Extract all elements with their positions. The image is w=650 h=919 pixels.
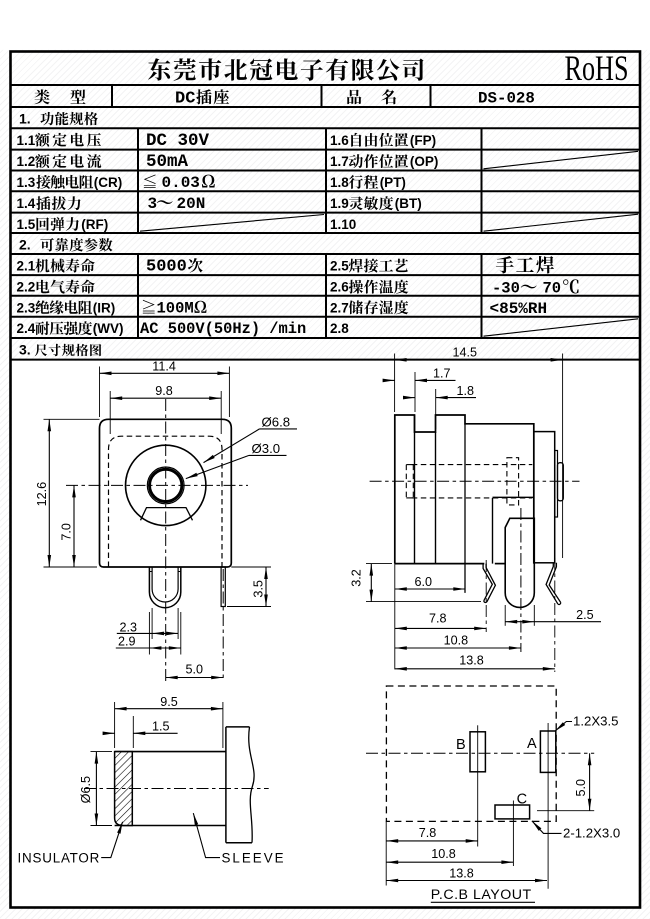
svg-text:7.8: 7.8 [419, 826, 437, 840]
SV dim 14.5 extension lines [394, 354, 396, 413]
svg-text:(IR): (IR) [93, 300, 116, 315]
svg-text:(OP): (OP) [410, 154, 439, 169]
FV leader D3.0 [249, 454, 287, 456]
PCB pad A centerline [547, 723, 549, 889]
PLUG barrel top edge [115, 751, 226, 753]
SV hidden pin pocket dashed [507, 458, 519, 505]
SV dim 1.8 extension line [435, 389, 437, 429]
SV hidden hole left cap dashed [405, 465, 407, 498]
FV right pin [221, 567, 225, 607]
SV pin top hidden edge [510, 517, 534, 519]
svg-text:(RF): (RF) [81, 217, 108, 232]
company name header [148, 58, 170, 80]
svg-text:1.8: 1.8 [457, 384, 475, 398]
PLUG insulator hatched block [115, 752, 133, 826]
FV dim 11.4 [100, 372, 230, 374]
svg-text:2.: 2. [19, 237, 31, 253]
svg-text:7.0: 7.0 [60, 523, 74, 541]
svg-text:1.1: 1.1 [17, 133, 36, 148]
PLUG dim 1.5 extension line [132, 716, 134, 748]
svg-text:RoHS: RoHS [565, 48, 629, 88]
svg-text:2.3: 2.3 [120, 620, 138, 634]
svg-text:1.7: 1.7 [433, 367, 451, 381]
N/A slash cell 1.10 [484, 214, 639, 231]
FV dim 9.8 [110, 397, 221, 399]
svg-text:1.5: 1.5 [17, 217, 36, 232]
svg-text:2.2: 2.2 [17, 280, 36, 295]
SV dim 3.2 [370, 564, 372, 602]
svg-text:5.0: 5.0 [186, 663, 204, 677]
PCB horizontal centerline [366, 752, 594, 754]
FV keyway trapezoid [141, 508, 193, 521]
FV center pin wall ticks [149, 571, 152, 573]
PCB pad C [495, 805, 530, 819]
svg-text:11.4: 11.4 [152, 359, 176, 373]
svg-text:13.8: 13.8 [459, 654, 484, 668]
svg-text:50mA: 50mA [146, 152, 189, 172]
SV internal horizontal ledge [493, 496, 534, 498]
SV flange right edge [414, 415, 416, 564]
FV dim 9.8 extension lines [109, 391, 111, 434]
FV inner ring D3.0 bold [150, 469, 182, 501]
PLUG dim 9.5 [115, 708, 223, 710]
svg-text:3: 3 [148, 195, 158, 213]
FV dim 12.6 extension lines [44, 418, 100, 420]
svg-text:2.3: 2.3 [17, 300, 36, 315]
SV internal vertical x435 [435, 432, 437, 564]
FV inner ring D3.0 outer [147, 467, 184, 504]
PLUG centerline [84, 788, 269, 790]
FV dim 3.5 extension lines [231, 566, 271, 568]
svg-text:2.8: 2.8 [330, 321, 349, 336]
FV dim 12.6 [48, 419, 50, 567]
SV internal vertical x465 [464, 424, 466, 593]
svg-text:9.8: 9.8 [155, 384, 173, 398]
svg-text:13.8: 13.8 [449, 867, 474, 881]
svg-text:DC 30V: DC 30V [146, 131, 210, 151]
svg-text:Ø6.5: Ø6.5 [79, 776, 93, 803]
svg-text:1.2X3.5: 1.2X3.5 [573, 713, 618, 728]
FV dim 11.4 extension lines [99, 367, 101, 418]
PLUG sleeve top edge [226, 726, 250, 728]
PLUG sleeve left edge [225, 727, 227, 843]
svg-text:2.6: 2.6 [330, 280, 349, 295]
FV body outline [100, 419, 232, 567]
FV big circle D6.8 [126, 445, 206, 525]
SV right block [534, 432, 555, 563]
FV leader D6.8 [260, 428, 298, 430]
FV pin extension lines below [151, 608, 153, 639]
svg-text:1.3: 1.3 [17, 175, 36, 190]
SV rounded center pin [505, 518, 534, 607]
svg-text:9.5: 9.5 [160, 695, 178, 709]
PCB dim 5.0 extension line [537, 810, 594, 812]
SV dim 2.5 extension lines [504, 605, 506, 626]
svg-text:12.6: 12.6 [35, 482, 49, 507]
PLUG sleeve wavy break line [249, 727, 254, 843]
FV horizontal centerline [66, 484, 248, 486]
FV dim 3.5 [265, 567, 267, 607]
PCB left extension line [385, 821, 387, 885]
table vertical grid lines row2 [111, 85, 113, 107]
svg-text:20N: 20N [177, 195, 206, 213]
SV dim 6.0 [395, 588, 466, 590]
svg-text:1.9: 1.9 [330, 196, 349, 211]
N/A slash cell 1.5 [140, 215, 324, 232]
PLUG dim 1.5 [133, 732, 177, 734]
PCB leader 1.2X3.5 [555, 722, 572, 732]
svg-text:P.C.B LAYOUT: P.C.B LAYOUT [431, 887, 532, 903]
svg-text:DC: DC [175, 90, 195, 109]
FV dim 7.0 [73, 485, 75, 567]
svg-text:1.10: 1.10 [330, 217, 356, 232]
N/A slash cell 2.8 [484, 319, 639, 336]
svg-text:2.5: 2.5 [576, 608, 594, 622]
PLUG sleeve bottom edge [226, 842, 252, 844]
SV right leg centerline [554, 558, 556, 672]
svg-text:SLEEVE: SLEEVE [222, 850, 286, 865]
svg-text:Ø3.0: Ø3.0 [252, 441, 281, 456]
svg-text:3.5: 3.5 [252, 580, 266, 598]
SV dim 10.8 [395, 647, 521, 649]
row type labels [34, 89, 49, 104]
SV dim 13.8 [395, 668, 555, 670]
table horizontal grid lines [10, 84, 640, 86]
PCB leader 2-1.2X3.0 [532, 821, 562, 834]
PCB pad B centerline [477, 725, 479, 846]
svg-text:7.8: 7.8 [429, 612, 447, 626]
top margin white [0, 0, 650, 50]
svg-text:A: A [527, 736, 537, 752]
FV center pin U inner wall [152, 567, 178, 602]
PCB pad A [540, 731, 555, 772]
PCB pad C centerline [512, 801, 514, 867]
svg-text:AC 500V(50Hz) /min: AC 500V(50Hz) /min [140, 320, 306, 338]
svg-text:(WV): (WV) [93, 321, 124, 336]
svg-text:0.03: 0.03 [162, 174, 200, 192]
svg-text:C: C [517, 791, 527, 807]
PCB dim 10.8 [386, 861, 513, 863]
PCB dashed outline [386, 686, 556, 821]
FV center pin U outer wall [149, 567, 180, 608]
svg-text:INSULATOR: INSULATOR [18, 850, 101, 865]
svg-text:70: 70 [543, 280, 562, 298]
PLUG barrel bottom edge [115, 825, 226, 827]
svg-text:1.6: 1.6 [330, 133, 349, 148]
svg-text:(PT): (PT) [380, 175, 406, 190]
svg-text:1.: 1. [19, 111, 31, 127]
FV right pin centerline [222, 569, 224, 679]
SV right leg [546, 563, 558, 604]
svg-text:2.7: 2.7 [330, 300, 349, 315]
PLUG dim D6.5 [95, 752, 97, 826]
svg-text:1.8: 1.8 [330, 175, 349, 190]
svg-text:5000: 5000 [146, 258, 187, 277]
PLUG dim D6.5 extension lines [91, 751, 113, 753]
svg-text:(FP): (FP) [410, 133, 436, 148]
PCB dim 13.8 [386, 880, 547, 882]
svg-text:1.7: 1.7 [330, 154, 349, 169]
FV dashed inner housing [109, 436, 223, 567]
svg-text:2.5: 2.5 [330, 259, 349, 274]
svg-text:1.2: 1.2 [17, 154, 36, 169]
SV left leg [483, 564, 492, 601]
svg-text:Ø6.8: Ø6.8 [262, 414, 291, 429]
PCB pad B [470, 732, 485, 772]
PCB dim 5.0 [589, 753, 591, 810]
N/A slash cell 1.7 [484, 151, 639, 169]
SV dim 2.5 [505, 621, 601, 623]
drawing area white background [12, 361, 639, 906]
svg-text:3.2: 3.2 [349, 569, 363, 587]
svg-text:2-1.2X3.0: 2-1.2X3.0 [563, 825, 620, 840]
SV dim 7.8 [395, 627, 486, 629]
svg-text:1.5: 1.5 [152, 720, 170, 734]
SV right thin plate [555, 451, 558, 518]
SV horizontal centerline [370, 480, 580, 482]
SV dim 1.8 [436, 397, 476, 399]
svg-text:100M: 100M [157, 299, 194, 317]
PLUG dim 9.5 extension lines [114, 702, 116, 748]
SV left leg centerline [485, 560, 487, 632]
svg-text:(BT): (BT) [395, 196, 422, 211]
svg-text:5.0: 5.0 [574, 779, 588, 797]
svg-text:1.4: 1.4 [17, 196, 36, 211]
svg-text:<85%RH: <85%RH [490, 300, 548, 318]
svg-text:6.0: 6.0 [415, 575, 433, 589]
svg-text:14.5: 14.5 [453, 345, 478, 359]
SV dim 1.7 extension line [414, 372, 416, 412]
PCB LAYOUT underline [431, 901, 535, 903]
SV left extension line down [394, 564, 396, 670]
PCB dim 7.8 [386, 840, 478, 842]
svg-text:2.4: 2.4 [17, 321, 36, 336]
SV dim 14.5 [395, 359, 563, 361]
INSULATOR leader [101, 822, 122, 858]
svg-text:-30: -30 [492, 280, 520, 298]
FV vertical centerline [165, 399, 167, 684]
svg-text:10.8: 10.8 [431, 847, 456, 861]
SV body top profile [395, 415, 534, 564]
svg-text:10.8: 10.8 [444, 634, 469, 648]
svg-text:B: B [456, 737, 466, 753]
SV right contact bump [558, 463, 564, 501]
SV dim 3.2 extension lines [366, 563, 392, 565]
svg-text:2.1: 2.1 [17, 259, 36, 274]
SV bottom edge [395, 563, 485, 565]
SV hidden hole dashed lines [412, 464, 533, 466]
svg-text:2.9: 2.9 [118, 635, 136, 649]
SV dim 1.7 [415, 379, 456, 381]
svg-text:DS-028: DS-028 [478, 90, 535, 108]
SV pin centerline [520, 508, 522, 652]
SLEEVE leader [193, 813, 220, 858]
svg-text:(CR): (CR) [94, 175, 123, 190]
svg-text:3.: 3. [19, 342, 31, 358]
SV internal vertical x492 [492, 498, 494, 564]
table vertical grid lines sections [137, 128, 139, 233]
